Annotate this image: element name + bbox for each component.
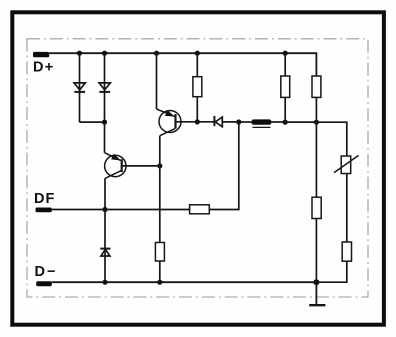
diode D3 (up-pointing, freewheel) (100, 210, 110, 283)
node: top rail junction x=156.5 (154, 51, 159, 56)
diode D2 (down-pointing, right) (99, 53, 110, 122)
label DF (34, 191, 55, 207)
resistor R2 (281, 53, 290, 122)
terminal D+ (33, 52, 49, 57)
diode D4 (left-pointing) (214, 116, 222, 127)
wire: diode pair bottom tie (80, 121, 105, 123)
wire: R7 down and left to ground node (316, 261, 346, 282)
resistor R7 (342, 242, 351, 261)
svg-text:DF: DF (34, 191, 55, 207)
resistor R3 (312, 76, 321, 122)
node: top rail junction x=285.2 (283, 51, 288, 56)
svg-text:D−: D− (35, 264, 58, 280)
resistor R6 (312, 122, 321, 282)
node: junction (105,209.5) (102, 207, 107, 212)
node: ground junction (316.4,282.2) (313, 279, 319, 285)
wire: Q2 base line (176, 121, 215, 123)
node: junction (159.8,166) (157, 163, 162, 168)
node: top rail junction x=79.5 (77, 51, 82, 56)
node: junction (197.3,122.1) (195, 119, 200, 124)
node: top rail junction x=197.3 (195, 51, 200, 56)
wire: D4 anode to node (222, 121, 239, 123)
ground (309, 282, 325, 305)
resistor R1 (above Q2 base) (193, 53, 202, 122)
resistor R5 (155, 243, 164, 283)
wire: node down through DF to resistor R5 (159, 166, 161, 243)
node: junction (105,282.2) (102, 280, 107, 285)
svg-text:D+: D+ (33, 60, 55, 76)
wire: D- bottom rail (52, 281, 317, 283)
label D- (35, 264, 58, 280)
wire: Q2 emitter from top rail (156, 53, 158, 109)
wire: junction down to Q1 emitter (104, 122, 106, 153)
inductor L1 (field winding) (239, 119, 285, 127)
node: junction (285.2,122.1) (283, 120, 288, 125)
diode D1 (down-pointing, left) (74, 53, 85, 122)
wire: DF line (52, 209, 190, 211)
transistor Q2 (PNP, mirrored) (157, 109, 182, 136)
variable resistor RV1 (334, 155, 359, 173)
wire: RV1 to R7 (346, 174, 348, 243)
terminal D- (36, 281, 52, 286)
wire: R4 right end up to mid rail node (209, 122, 239, 210)
wire: mid rail to right branch corner (316, 122, 346, 156)
wire: D+ top rail (49, 53, 316, 76)
node: junction (238.8,122.1) (236, 119, 241, 124)
inner chassis dash-dot frame (27, 39, 368, 297)
transistor Q1 (PNP, mirrored) (105, 153, 127, 179)
wire: Q1 base to node (122, 165, 160, 167)
node: top rail junction x=104.5 (102, 51, 107, 56)
node: junction (159.8,282.2) (157, 280, 162, 285)
wire: mid rail R2 to R3 (285, 121, 316, 123)
wire: Q2 collector down to node (159.8,166) (159, 136, 161, 166)
node: junction (316.4,122.2) (314, 120, 319, 125)
resistor R4 (horizontal) (190, 205, 210, 214)
terminal DF (36, 208, 52, 213)
wire: Q1 collector down to DF node (104, 178, 106, 209)
label D+ (33, 60, 55, 76)
node: junction (104.5,122.1) (102, 120, 107, 125)
